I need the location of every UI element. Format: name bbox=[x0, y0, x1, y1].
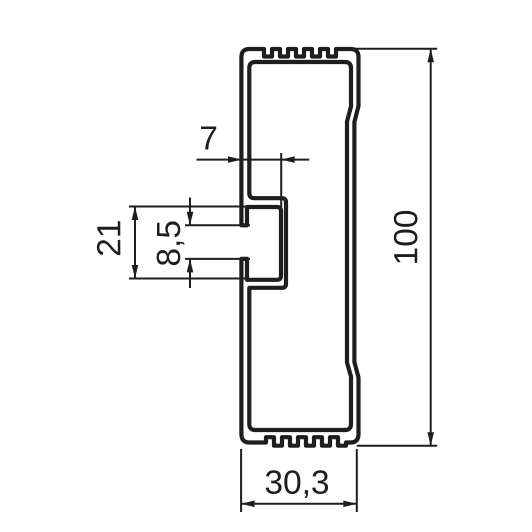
dimension 30,3: horizontal dim line, arrows and extension lines bbox=[241, 449, 357, 512]
dimension 7: dim line with inward arrows and extension line bbox=[197, 153, 310, 207]
label 7 bbox=[201, 127, 216, 150]
label 8,5 (rotated) bbox=[157, 221, 185, 265]
label 21 (rotated) bbox=[97, 221, 120, 255]
label 100 (rotated) bbox=[394, 211, 418, 263]
profile outer contour: serrated top/bottom edges, jogged right wall, left wall with slot mouth and lips bbox=[241, 49, 358, 446]
profile inner contour: hollow chamber wall with slot channel box bbox=[249, 62, 351, 430]
dimension 8,5: dim line tails, outside arrows and extension lines bbox=[185, 198, 250, 289]
dimension 21: vertical dim line, arrows and extension lines bbox=[129, 207, 249, 279]
dimension 100: vertical dim line, arrows and extension lines bbox=[354, 49, 437, 446]
label 30,3 bbox=[266, 470, 328, 498]
